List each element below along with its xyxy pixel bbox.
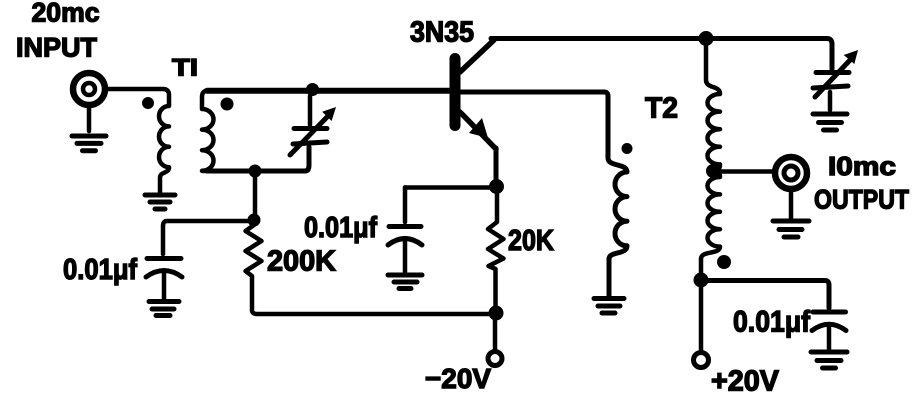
svg-text:INPUT: INPUT	[16, 33, 98, 63]
svg-text:0.01μf: 0.01μf	[733, 306, 811, 339]
svg-text:200K: 200K	[267, 246, 336, 278]
svg-text:3N35: 3N35	[410, 17, 474, 49]
svg-text:OUTPUT: OUTPUT	[814, 185, 909, 215]
svg-text:20mc: 20mc	[32, 0, 100, 28]
svg-text:T2: T2	[645, 93, 678, 125]
svg-text:0.01μf: 0.01μf	[304, 212, 377, 244]
svg-text:+20V: +20V	[711, 366, 780, 398]
svg-text:0.01μf: 0.01μf	[63, 254, 137, 286]
svg-text:I0mc: I0mc	[828, 151, 896, 181]
svg-text:20K: 20K	[508, 225, 554, 257]
svg-text:TI: TI	[172, 55, 198, 82]
svg-text:−20V: −20V	[425, 363, 491, 394]
